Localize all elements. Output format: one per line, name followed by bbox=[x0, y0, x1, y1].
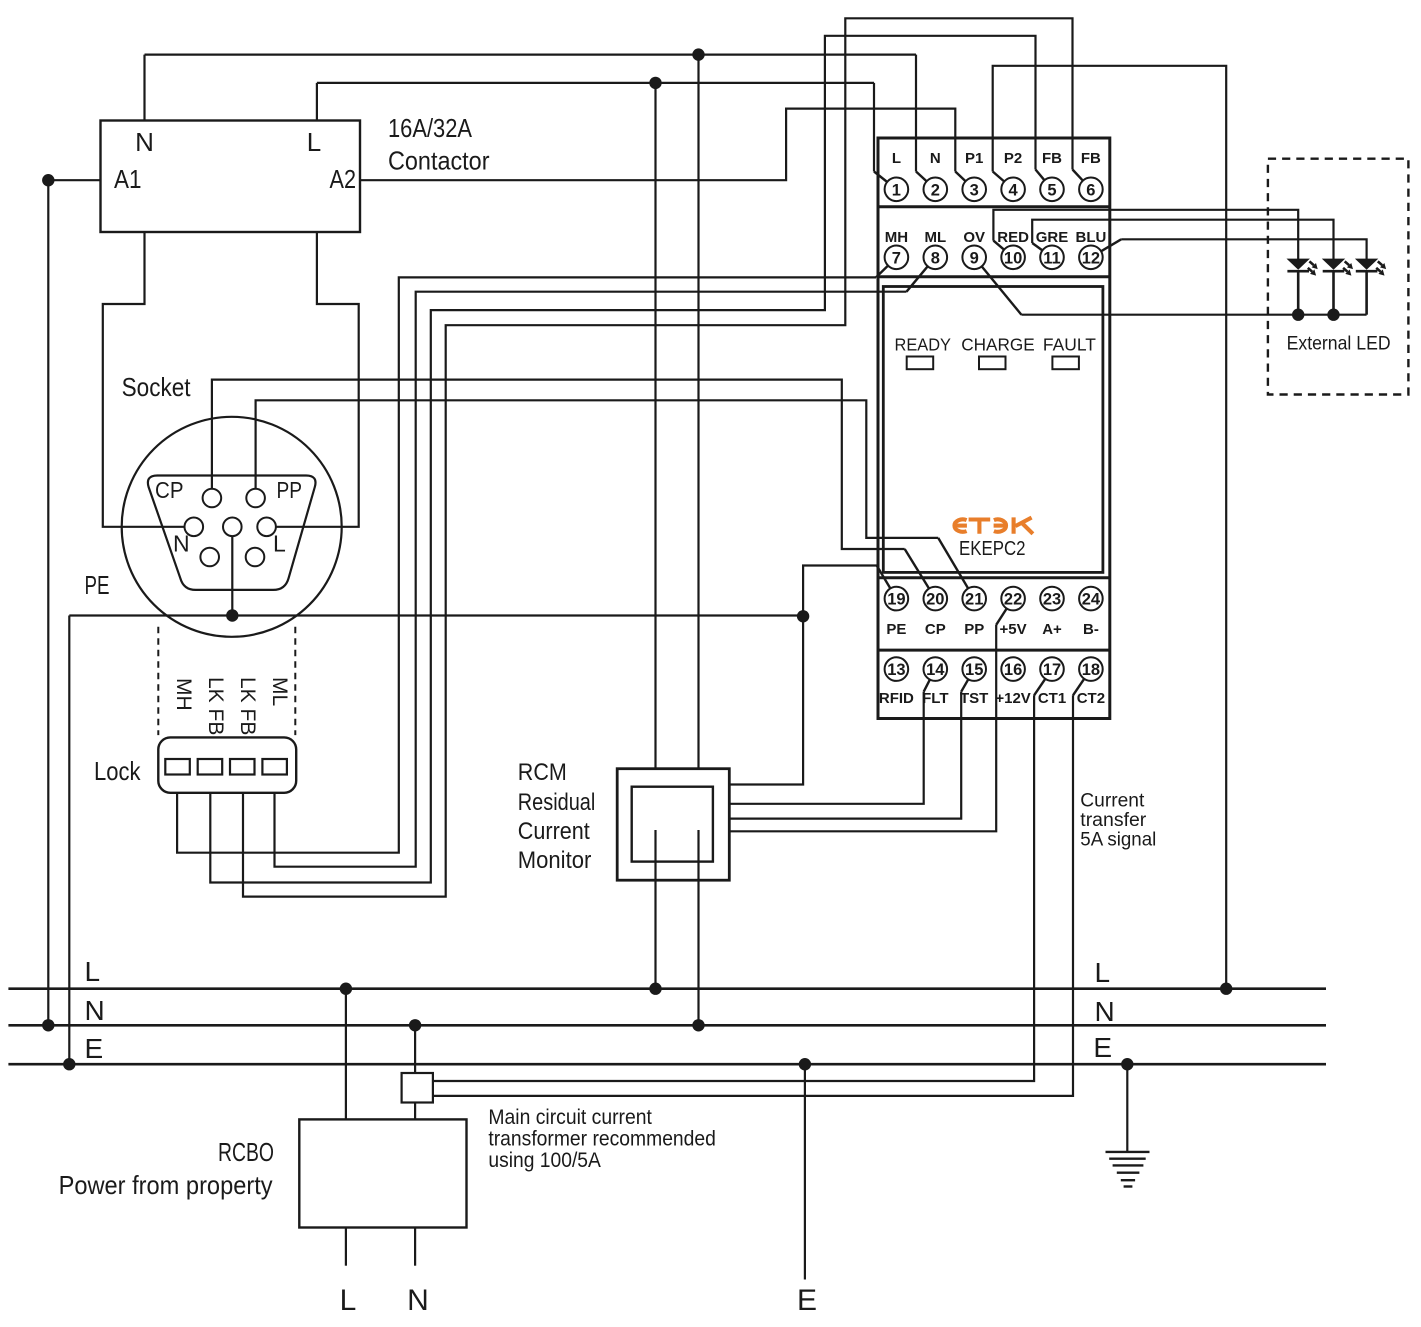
svg-text:23: 23 bbox=[1043, 591, 1061, 609]
wire lead terminal 20 bbox=[905, 549, 929, 589]
svg-text:B-: B- bbox=[1083, 621, 1099, 638]
svg-text:GRE: GRE bbox=[1036, 229, 1069, 246]
wire lead terminal 8 bbox=[907, 266, 928, 291]
wire E supply lead bbox=[804, 1064, 806, 1279]
terminal 14 bbox=[924, 657, 948, 681]
svg-text:14: 14 bbox=[926, 661, 945, 679]
wire lead terminal 22 bbox=[996, 609, 1007, 625]
lock dashed left bbox=[157, 627, 159, 735]
wire terminal 10 RED to LED1 bbox=[993, 210, 1298, 260]
terminal 10 bbox=[1001, 245, 1025, 269]
wire lead terminal 21 bbox=[938, 538, 968, 589]
wire terminal 9 OV to LED common bbox=[982, 266, 1022, 314]
svg-text:CT2: CT2 bbox=[1077, 690, 1105, 707]
svg-text:7: 7 bbox=[892, 249, 901, 267]
terminal 7 bbox=[885, 245, 909, 269]
wire lead terminal 19 bbox=[877, 566, 891, 589]
terminal 3 bbox=[962, 178, 986, 202]
wire terminal 11 GRE to LED2 bbox=[1032, 220, 1333, 260]
wire RCM to terminal 22 +5V bbox=[729, 625, 996, 832]
svg-text:4: 4 bbox=[1009, 181, 1019, 199]
svg-text:PE: PE bbox=[85, 570, 110, 600]
svg-text:READY: READY bbox=[895, 334, 952, 354]
EKEPC2 body bbox=[883, 287, 1103, 573]
socket pin PP bbox=[246, 489, 265, 508]
wire PE horizontal bbox=[69, 614, 803, 616]
wire lead terminal 17 bbox=[1034, 679, 1045, 696]
wire RCM TST to terminal 15 bbox=[729, 692, 961, 819]
wire lead terminal 12 bbox=[1101, 239, 1121, 251]
svg-text:LK FB: LK FB bbox=[204, 677, 227, 735]
svg-text:6: 6 bbox=[1086, 181, 1095, 199]
wire RCM FLT to terminal 14 bbox=[729, 692, 923, 804]
divider row1 bbox=[878, 205, 1110, 208]
svg-text:1: 1 bbox=[892, 181, 901, 199]
wire N bus to RCBO bbox=[414, 1025, 416, 1119]
svg-text:16A/32A: 16A/32A bbox=[388, 113, 473, 143]
svg-text:Current: Current bbox=[518, 818, 590, 845]
wire lead terminal 15 bbox=[961, 679, 968, 691]
terminal 17 bbox=[1040, 657, 1064, 681]
wire N feeder lower bbox=[697, 830, 699, 1025]
wire lead terminal 3 bbox=[955, 172, 965, 182]
terminal 1 bbox=[885, 178, 909, 202]
contactor box bbox=[101, 121, 361, 233]
divider row4 bbox=[878, 649, 1110, 652]
svg-text:N: N bbox=[407, 1284, 429, 1317]
svg-text:MH: MH bbox=[172, 678, 195, 711]
external LED dashed box bbox=[1268, 159, 1409, 395]
wire L feeder lower bbox=[654, 830, 656, 989]
svg-text:using 100/5A: using 100/5A bbox=[488, 1149, 601, 1172]
wire RCBO lead N bbox=[414, 1228, 416, 1266]
wire to terminal 1 vertical bbox=[873, 83, 875, 172]
LED indicator READY bbox=[907, 357, 934, 370]
wire lead terminal 7 bbox=[876, 266, 888, 278]
wire N bus bbox=[8, 1024, 1326, 1027]
wire net N-top horizontal bbox=[145, 53, 917, 55]
RCM inner box bbox=[632, 787, 713, 862]
junction L bus feeder bbox=[649, 983, 661, 995]
wire PE to E bus bbox=[68, 616, 70, 1065]
ground bbox=[1106, 1064, 1150, 1186]
wire contactor N to socket N pin bbox=[103, 232, 185, 527]
wire lead terminal 14 bbox=[924, 680, 930, 692]
LED D2 bbox=[1323, 259, 1353, 315]
svg-text:ML: ML bbox=[924, 229, 946, 246]
svg-text:FB: FB bbox=[1081, 150, 1101, 167]
socket pin aux1 bbox=[200, 548, 219, 567]
svg-text:12: 12 bbox=[1082, 249, 1100, 267]
wire terminal 12 BLU to LED3 bbox=[1121, 239, 1366, 260]
svg-text:ML: ML bbox=[268, 677, 291, 706]
svg-text:5A signal: 5A signal bbox=[1080, 830, 1156, 851]
wire contactor L to socket L pin bbox=[276, 232, 359, 527]
svg-text:Contactor: Contactor bbox=[388, 146, 490, 176]
wire CT to terminal 17 CT1 bbox=[433, 695, 1034, 1081]
terminal 5 bbox=[1040, 178, 1064, 202]
svg-text:E: E bbox=[85, 1033, 104, 1064]
wire A1 to N bus bbox=[48, 180, 100, 1025]
current transformer CT bbox=[402, 1073, 433, 1103]
svg-text:N: N bbox=[930, 150, 941, 167]
svg-text:A2: A2 bbox=[330, 164, 357, 194]
wire contactor L up bbox=[316, 83, 318, 121]
svg-text:5: 5 bbox=[1047, 181, 1056, 199]
wire CT to terminal 18 CT2 bbox=[433, 695, 1073, 1096]
wire lead terminal 5 bbox=[1036, 170, 1045, 181]
svg-text:N: N bbox=[85, 995, 105, 1026]
terminal 9 bbox=[962, 245, 986, 269]
divider row2 bbox=[878, 275, 1110, 278]
junction PE node bbox=[797, 610, 809, 622]
svg-text:18: 18 bbox=[1082, 661, 1100, 679]
svg-text:15: 15 bbox=[965, 661, 983, 679]
wire PE junction to terminal 19 bbox=[803, 566, 877, 617]
EKEPC2 outer frame bbox=[878, 138, 1110, 719]
svg-text:PP: PP bbox=[277, 477, 303, 503]
svg-text:13: 13 bbox=[887, 661, 905, 679]
svg-text:19: 19 bbox=[887, 591, 905, 609]
svg-text:22: 22 bbox=[1004, 591, 1022, 609]
junction L bus RCBO bbox=[340, 983, 352, 995]
terminal 11 bbox=[1040, 245, 1064, 269]
RCM outer box bbox=[617, 769, 729, 881]
svg-text:24: 24 bbox=[1082, 591, 1101, 609]
wire RCBO lead L bbox=[345, 1228, 347, 1266]
svg-text:A+: A+ bbox=[1042, 621, 1062, 638]
wire to terminal 2 vertical bbox=[915, 55, 917, 172]
junction socket PE bbox=[226, 609, 238, 621]
terminal 2 bbox=[924, 178, 948, 202]
svg-text:Monitor: Monitor bbox=[518, 847, 592, 874]
junction N bus A1 bbox=[42, 1019, 54, 1031]
svg-text:BLU: BLU bbox=[1075, 229, 1106, 246]
svg-text:Socket: Socket bbox=[122, 372, 192, 402]
svg-text:N: N bbox=[1095, 996, 1115, 1027]
svg-text:8: 8 bbox=[931, 249, 940, 267]
svg-text:Lock: Lock bbox=[94, 756, 141, 786]
socket pin aux2 bbox=[246, 548, 265, 567]
wire lead terminal 10 bbox=[993, 241, 1004, 250]
svg-text:L: L bbox=[307, 127, 321, 157]
svg-text:EKEPC2: EKEPC2 bbox=[959, 538, 1026, 560]
socket circle bbox=[122, 417, 342, 637]
svg-text:Main circuit current: Main circuit current bbox=[488, 1106, 652, 1129]
svg-text:OV: OV bbox=[963, 229, 985, 246]
svg-text:FB: FB bbox=[1042, 150, 1062, 167]
socket pin L bbox=[257, 518, 276, 537]
lock pin LKFB1 bbox=[198, 759, 223, 775]
lock box bbox=[158, 737, 296, 792]
wire L bus bbox=[8, 987, 1326, 990]
terminal 8 bbox=[924, 245, 948, 269]
LED D3 bbox=[1356, 259, 1386, 315]
junction A1 corner bbox=[42, 174, 54, 186]
svg-text:16: 16 bbox=[1004, 661, 1022, 679]
svg-text:External LED: External LED bbox=[1287, 333, 1391, 355]
junction N bus feeder bbox=[692, 1019, 704, 1031]
svg-text:A1: A1 bbox=[114, 164, 142, 194]
wire lead terminal 2 bbox=[916, 172, 927, 182]
RCBO box bbox=[299, 1119, 466, 1227]
socket connector body bbox=[148, 476, 316, 590]
svg-text:21: 21 bbox=[965, 591, 983, 609]
svg-text:TST: TST bbox=[960, 690, 988, 707]
socket pin PE bbox=[223, 518, 242, 537]
svg-text:9: 9 bbox=[970, 249, 979, 267]
svg-text:11: 11 bbox=[1043, 249, 1060, 267]
wire E bus bbox=[8, 1063, 1326, 1066]
terminal 22 bbox=[1001, 587, 1025, 611]
terminal 12 bbox=[1079, 245, 1103, 269]
svg-text:CHARGE: CHARGE bbox=[961, 334, 1034, 354]
svg-text:PP: PP bbox=[964, 621, 984, 638]
svg-text:L: L bbox=[1095, 957, 1111, 988]
svg-text:PE: PE bbox=[886, 621, 906, 638]
terminal 18 bbox=[1079, 657, 1103, 681]
lock pin ML bbox=[262, 759, 287, 775]
svg-text:CT1: CT1 bbox=[1038, 690, 1066, 707]
wire PE junction to RCM bbox=[729, 616, 803, 784]
lock dashed right bbox=[294, 627, 296, 735]
wire terminal 4 P2 to L bus bbox=[993, 66, 1226, 989]
socket pin CP bbox=[203, 489, 222, 508]
svg-text:RCM: RCM bbox=[518, 759, 567, 786]
svg-text:transfer: transfer bbox=[1080, 810, 1147, 831]
svg-text:3: 3 bbox=[970, 181, 979, 199]
svg-text:RED: RED bbox=[997, 229, 1029, 246]
wire lead terminal 18 bbox=[1073, 679, 1084, 696]
wire lead terminal 6 bbox=[1073, 170, 1083, 181]
lock pin MH bbox=[165, 759, 190, 775]
svg-text:N: N bbox=[135, 127, 154, 157]
svg-text:+5V: +5V bbox=[1000, 621, 1027, 638]
svg-text:Residual: Residual bbox=[518, 789, 596, 816]
wire lock LK FB to terminal 6 FB bbox=[243, 18, 1073, 896]
svg-text:FAULT: FAULT bbox=[1043, 334, 1096, 354]
svg-text:CP: CP bbox=[925, 621, 946, 638]
wire lock ML to terminal 8 bbox=[275, 292, 907, 867]
terminal 6 bbox=[1079, 178, 1103, 202]
svg-text:L: L bbox=[340, 1284, 357, 1317]
svg-text:Power from property: Power from property bbox=[59, 1170, 273, 1200]
wire socket CP to terminal 20 bbox=[212, 380, 905, 549]
wire L feeder upper bbox=[654, 83, 656, 769]
wire A2 to terminal 3 P1 bbox=[360, 109, 955, 181]
junction LED2 common bbox=[1327, 309, 1339, 321]
wire LED common return bbox=[1021, 314, 1366, 316]
socket pin N bbox=[185, 518, 204, 537]
junction E bus lead bbox=[799, 1058, 811, 1070]
svg-text:RFID: RFID bbox=[879, 690, 914, 707]
svg-text:P2: P2 bbox=[1004, 150, 1022, 167]
svg-text:+12V: +12V bbox=[995, 690, 1030, 707]
terminal 24 bbox=[1079, 587, 1103, 611]
svg-text:FLT: FLT bbox=[922, 690, 948, 707]
svg-text:E: E bbox=[1093, 1032, 1112, 1063]
wire net L-top horizontal bbox=[317, 82, 874, 84]
svg-text:MH: MH bbox=[885, 229, 908, 246]
wire lock MH to terminal 7 bbox=[177, 277, 876, 852]
svg-text:20: 20 bbox=[926, 591, 944, 609]
wire N feeder upper bbox=[697, 55, 699, 769]
svg-text:L: L bbox=[273, 531, 286, 557]
wire lead terminal 1 bbox=[874, 172, 887, 183]
terminal 15 bbox=[962, 657, 986, 681]
svg-text:CP: CP bbox=[155, 477, 184, 503]
svg-text:N: N bbox=[173, 531, 190, 557]
terminal 23 bbox=[1040, 587, 1064, 611]
svg-text:L: L bbox=[85, 956, 101, 987]
terminal 21 bbox=[962, 587, 986, 611]
terminal 19 bbox=[885, 587, 909, 611]
svg-text:L: L bbox=[892, 150, 901, 167]
svg-text:17: 17 bbox=[1043, 661, 1061, 679]
wire lead terminal 11 bbox=[1032, 243, 1042, 250]
svg-text:E: E bbox=[797, 1284, 817, 1317]
divider row3 bbox=[878, 576, 1110, 579]
svg-text:LK FB: LK FB bbox=[236, 677, 259, 735]
terminal 4 bbox=[1001, 178, 1025, 202]
LED indicator FAULT bbox=[1052, 357, 1079, 370]
LED D1 bbox=[1287, 259, 1317, 315]
svg-text:transformer recommended: transformer recommended bbox=[488, 1128, 716, 1151]
terminal 16 bbox=[1001, 657, 1025, 681]
junction LED1 common bbox=[1292, 309, 1304, 321]
junction L bus P2 bbox=[1220, 983, 1232, 995]
terminal 20 bbox=[924, 587, 948, 611]
svg-text:10: 10 bbox=[1004, 249, 1022, 267]
wire lead terminal 4 bbox=[993, 172, 1005, 182]
svg-text:2: 2 bbox=[931, 181, 940, 199]
LED indicator CHARGE bbox=[979, 357, 1006, 370]
terminal 13 bbox=[885, 657, 909, 681]
wire socket PP to terminal 21 bbox=[256, 400, 939, 538]
junction E bus ground bbox=[1121, 1058, 1133, 1070]
junction N bus RCBO bbox=[409, 1019, 421, 1031]
svg-text:Current: Current bbox=[1080, 791, 1145, 812]
wire contactor N up bbox=[143, 55, 145, 121]
wire socket PE down bbox=[231, 536, 233, 616]
svg-text:P1: P1 bbox=[965, 150, 983, 167]
junction N-top bbox=[692, 48, 704, 60]
wire lock LK FB to terminal 5 FB bbox=[210, 36, 1035, 883]
junction L-top bbox=[649, 77, 661, 89]
junction E bus PE bbox=[63, 1058, 75, 1070]
svg-text:RCBO: RCBO bbox=[218, 1137, 274, 1167]
wire L bus to RCBO bbox=[345, 989, 347, 1120]
lock pin LKFB2 bbox=[230, 759, 255, 775]
logo ETEK bbox=[954, 517, 1032, 533]
